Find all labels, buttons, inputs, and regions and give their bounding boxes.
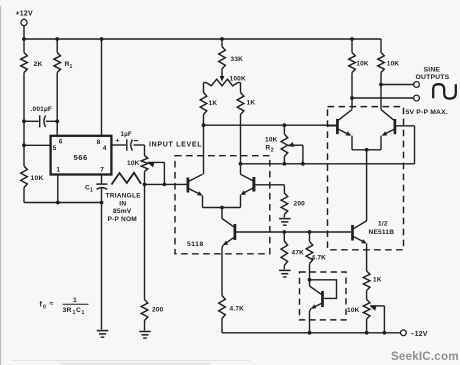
svg-text:3R: 3R — [63, 307, 72, 314]
svg-text:1K: 1K — [247, 100, 256, 107]
svg-text:10K: 10K — [356, 60, 369, 67]
svg-text:1K: 1K — [373, 277, 382, 284]
svg-text:–12V: –12V — [411, 331, 428, 338]
svg-text:10K: 10K — [347, 307, 360, 314]
svg-text:4.7K: 4.7K — [230, 305, 245, 312]
svg-text:85mV: 85mV — [113, 208, 132, 215]
svg-text:10K: 10K — [265, 136, 278, 143]
svg-text:200: 200 — [294, 201, 306, 208]
svg-text:33K: 33K — [231, 56, 244, 63]
svg-text:5118: 5118 — [187, 241, 204, 248]
svg-text:1K: 1K — [209, 100, 218, 107]
svg-text:4: 4 — [103, 145, 107, 152]
svg-text:1: 1 — [82, 310, 85, 316]
svg-text:SINE: SINE — [424, 66, 441, 73]
svg-text:4.7K: 4.7K — [312, 255, 327, 262]
svg-text:2: 2 — [271, 148, 274, 154]
svg-text:TRIANGLE: TRIANGLE — [106, 193, 142, 200]
svg-text:1µF: 1µF — [121, 131, 132, 138]
svg-text:NE511B: NE511B — [369, 229, 395, 236]
svg-text:+12V: +12V — [16, 11, 33, 18]
svg-text:.001µF: .001µF — [31, 106, 53, 113]
svg-text:INPUT LEVEL: INPUT LEVEL — [149, 142, 202, 149]
svg-text:47K: 47K — [292, 249, 305, 256]
svg-text:7: 7 — [100, 167, 104, 174]
svg-text:C: C — [76, 307, 81, 314]
svg-text:10K: 10K — [31, 175, 44, 182]
svg-text:10K: 10K — [127, 160, 140, 167]
svg-text:1: 1 — [73, 297, 77, 304]
svg-text:+: + — [116, 138, 120, 145]
svg-text:200: 200 — [152, 307, 164, 314]
svg-text:IN: IN — [119, 200, 126, 207]
svg-text:5: 5 — [53, 145, 57, 152]
svg-text:1: 1 — [90, 187, 93, 193]
svg-text:6: 6 — [59, 139, 63, 146]
svg-text:8: 8 — [97, 139, 101, 146]
svg-text:P-P NOM: P-P NOM — [108, 216, 138, 223]
svg-text:2K: 2K — [34, 61, 43, 68]
svg-text:1: 1 — [56, 167, 60, 174]
svg-text:0: 0 — [43, 305, 46, 311]
svg-text:OUTPUTS: OUTPUTS — [416, 74, 450, 81]
svg-text:1: 1 — [70, 64, 73, 70]
svg-text:1/2: 1/2 — [378, 220, 388, 227]
svg-text:SeekIC.com: SeekIC.com — [391, 350, 459, 363]
svg-text:566: 566 — [74, 153, 88, 162]
svg-text:10K: 10K — [387, 60, 400, 67]
svg-text:5V P-P MAX.: 5V P-P MAX. — [406, 109, 449, 116]
svg-text:100K: 100K — [230, 75, 246, 82]
svg-text:≈: ≈ — [50, 301, 54, 308]
